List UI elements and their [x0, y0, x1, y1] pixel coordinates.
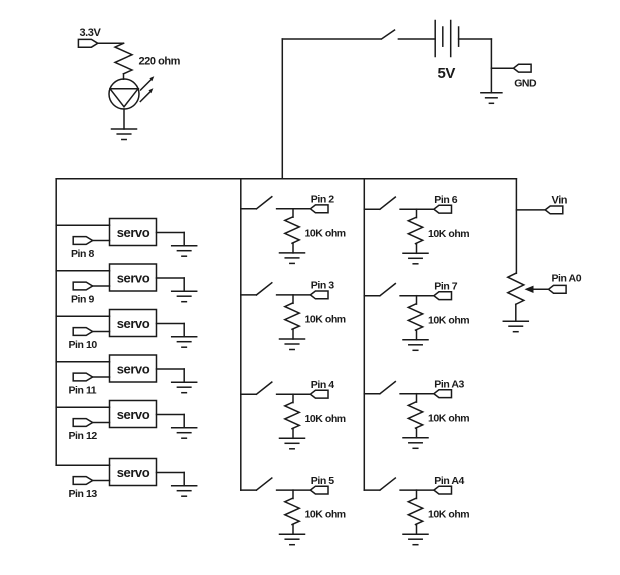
svg-text:GND: GND — [514, 78, 537, 90]
svg-text:Pin 11: Pin 11 — [69, 385, 97, 397]
svg-text:220 ohm: 220 ohm — [139, 56, 181, 68]
svg-text:10K ohm: 10K ohm — [428, 314, 469, 326]
svg-text:servo: servo — [117, 270, 150, 285]
svg-text:Vin: Vin — [552, 194, 568, 206]
svg-text:servo: servo — [117, 361, 150, 376]
svg-text:10K ohm: 10K ohm — [305, 227, 346, 239]
svg-text:Pin A3: Pin A3 — [434, 379, 464, 391]
svg-text:3.3V: 3.3V — [80, 27, 102, 39]
svg-text:Pin 7: Pin 7 — [434, 281, 457, 293]
svg-text:Pin 3: Pin 3 — [311, 280, 334, 292]
svg-text:10K ohm: 10K ohm — [305, 314, 346, 326]
svg-text:Pin 8: Pin 8 — [71, 248, 94, 260]
svg-text:Pin 12: Pin 12 — [69, 430, 98, 442]
svg-text:Pin 13: Pin 13 — [69, 488, 98, 500]
svg-text:Pin 9: Pin 9 — [71, 294, 94, 306]
svg-text:Pin 2: Pin 2 — [311, 194, 334, 206]
svg-text:Pin A0: Pin A0 — [552, 272, 582, 284]
svg-text:servo: servo — [117, 225, 150, 240]
svg-text:Pin A4: Pin A4 — [434, 475, 464, 487]
svg-text:Pin 4: Pin 4 — [311, 379, 334, 391]
svg-text:Pin 6: Pin 6 — [434, 194, 457, 206]
svg-text:10K ohm: 10K ohm — [428, 509, 469, 521]
svg-text:servo: servo — [117, 316, 150, 331]
svg-text:Pin 5: Pin 5 — [311, 475, 334, 487]
svg-text:servo: servo — [117, 465, 150, 480]
svg-text:10K ohm: 10K ohm — [305, 413, 346, 425]
svg-text:5V: 5V — [438, 65, 456, 82]
svg-text:10K ohm: 10K ohm — [428, 228, 469, 240]
svg-text:10K ohm: 10K ohm — [428, 412, 469, 424]
svg-text:10K ohm: 10K ohm — [305, 509, 346, 521]
svg-text:servo: servo — [117, 407, 150, 422]
svg-text:Pin 10: Pin 10 — [69, 339, 98, 351]
